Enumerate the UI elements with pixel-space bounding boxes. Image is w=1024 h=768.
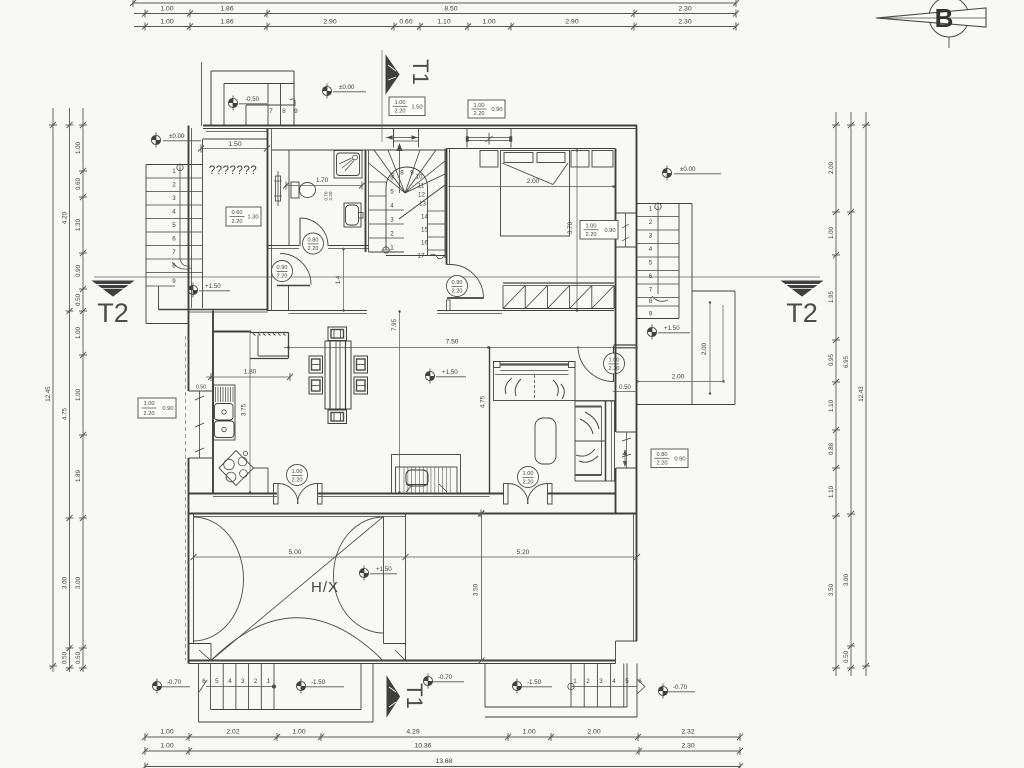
dimension row top 2: 1.00 1.86 2.90 0.60 1.10 1.00 2.90 2.30 <box>134 19 739 31</box>
svg-text:0.90: 0.90 <box>452 280 463 286</box>
svg-text:4: 4 <box>228 678 232 685</box>
dimension row bottom 1 <box>142 729 743 742</box>
bed dim line <box>448 185 615 187</box>
bottom right stair direction <box>568 679 645 694</box>
svg-text:2.20: 2.20 <box>277 274 288 280</box>
right stair direction line <box>652 202 668 301</box>
svg-text:1.89: 1.89 <box>75 469 82 482</box>
svg-text:0.80: 0.80 <box>308 238 319 244</box>
corridor door 0.90/2.20 <box>277 254 311 312</box>
section marker T1 bottom <box>387 677 427 716</box>
chair <box>309 377 323 394</box>
nightstand right <box>571 151 589 168</box>
right outdoor stair <box>637 204 692 319</box>
svg-text:6.95: 6.95 <box>843 355 850 368</box>
level marker -1.50 <box>512 679 552 694</box>
chair <box>354 377 368 394</box>
balcony railing hatched <box>503 283 614 309</box>
section marker T2 right <box>782 281 822 328</box>
right bay walls <box>637 204 735 405</box>
dimension row top overall <box>130 0 739 7</box>
svg-text:4: 4 <box>390 203 394 210</box>
svg-text:1.00: 1.00 <box>474 103 485 109</box>
right dimension chain 6.95 3.00 0.50 <box>843 112 855 676</box>
inner face of top wall (left room and bath) <box>203 138 268 140</box>
svg-text:0.50: 0.50 <box>75 651 82 664</box>
svg-text:5: 5 <box>390 189 394 196</box>
svg-text:13.68: 13.68 <box>435 758 452 765</box>
svg-text:3: 3 <box>390 217 394 224</box>
svg-text:3: 3 <box>241 678 245 685</box>
left fine dimension chain <box>75 108 87 672</box>
winder stair well <box>369 149 446 259</box>
bedroom left wall <box>446 149 448 265</box>
svg-text:12.43: 12.43 <box>858 386 865 402</box>
H/X room left wall <box>193 514 195 645</box>
svg-text:5: 5 <box>649 260 653 267</box>
section marker T2 left <box>93 281 133 328</box>
winder steps fan <box>369 150 446 219</box>
H/X left pilaster <box>189 644 212 661</box>
bedroom vertical dim 3.70 <box>567 149 578 311</box>
svg-text:7: 7 <box>649 287 653 294</box>
lower face wall / terrace top <box>189 510 638 518</box>
svg-text:1.50: 1.50 <box>411 104 422 110</box>
bathroom left wall shaft <box>288 150 290 246</box>
svg-text:2.20: 2.20 <box>452 289 463 295</box>
svg-text:1.00: 1.00 <box>828 226 835 239</box>
svg-text:2.30: 2.30 <box>678 6 691 13</box>
level marker -0.50 <box>228 96 267 111</box>
section line T2 across plan <box>94 276 820 278</box>
svg-text:1.00: 1.00 <box>522 729 535 736</box>
svg-text:17: 17 <box>418 253 425 260</box>
svg-text:1.50: 1.50 <box>228 141 241 148</box>
svg-text:10.36: 10.36 <box>414 743 431 750</box>
coffee table <box>535 418 556 464</box>
kitchen cupboard <box>250 333 289 359</box>
right fine dimension chain <box>828 112 840 676</box>
terrace depth dim 3.50 <box>473 511 486 664</box>
left dimension chain total 12.45 <box>45 108 57 672</box>
washbasin <box>344 203 363 227</box>
svg-text:1.10: 1.10 <box>828 399 835 412</box>
svg-text:5: 5 <box>215 678 219 685</box>
svg-text:1.70: 1.70 <box>316 177 329 184</box>
french door 1 (dining to terrace) <box>274 483 323 504</box>
svg-text:H/X: H/X <box>311 579 339 596</box>
bottom right porch <box>485 664 637 718</box>
entry porch walls <box>202 62 295 132</box>
nightstand left <box>480 151 498 168</box>
left room inner left wall face <box>202 139 204 308</box>
bottom wall of main building <box>189 494 616 497</box>
svg-text:1.95: 1.95 <box>828 290 835 303</box>
closet right <box>592 151 613 168</box>
svg-text:0.95: 0.95 <box>828 353 835 366</box>
level marker -0.70 <box>423 674 464 689</box>
svg-text:4.29: 4.29 <box>406 729 419 736</box>
svg-text:1.00: 1.00 <box>160 729 173 736</box>
level marker -1.50 <box>296 679 344 694</box>
bathroom door 0.80/2.20 <box>300 218 328 246</box>
svg-text:13: 13 <box>419 201 426 208</box>
svg-text:11: 11 <box>418 183 425 190</box>
H/X room right wall <box>384 514 406 661</box>
svg-text:5.20: 5.20 <box>517 549 530 556</box>
svg-text:2.30: 2.30 <box>681 743 694 750</box>
kitchen top wall <box>213 331 250 333</box>
bottom right stair steps 1-6 <box>571 664 642 708</box>
svg-text:0.90: 0.90 <box>604 228 615 234</box>
level marker +1.50 <box>425 369 466 384</box>
stair up arrow through window <box>397 143 403 193</box>
svg-text:2.00: 2.00 <box>527 178 540 185</box>
svg-text:???????: ??????? <box>209 165 257 177</box>
svg-text:3.00: 3.00 <box>843 573 850 586</box>
dimension row top 1: 1.00 1.86 8.50 2.30 <box>134 6 739 18</box>
kitchen stove 4 burners <box>219 451 254 486</box>
svg-text:0.60: 0.60 <box>232 210 243 216</box>
H/X diagonal <box>211 517 384 661</box>
left dimension chain 4.20 4.75 3.00 0.50 <box>62 108 74 672</box>
svg-text:1.00: 1.00 <box>75 388 82 401</box>
section marker T1 top <box>382 50 433 142</box>
level marker +1.50 <box>647 325 690 340</box>
svg-text:+1.50: +1.50 <box>205 283 221 290</box>
svg-text:2.00: 2.00 <box>828 161 835 174</box>
svg-text:9: 9 <box>294 108 298 115</box>
entry steps 7 8 9 <box>246 84 298 127</box>
svg-text:3: 3 <box>599 678 603 685</box>
shower <box>334 151 362 179</box>
horizontal dim 2.00 at bay <box>636 374 724 383</box>
kitchen vertical dim 3.75 <box>241 330 252 493</box>
vertical dim 7.95 <box>391 310 401 493</box>
svg-text:0.60: 0.60 <box>399 19 412 26</box>
svg-text:-1.50: -1.50 <box>311 679 326 686</box>
svg-text:1: 1 <box>172 168 176 175</box>
svg-text:1: 1 <box>649 206 653 213</box>
dining/living separator wall <box>489 347 491 494</box>
svg-text:10: 10 <box>416 174 423 181</box>
svg-text:T1: T1 <box>402 683 427 709</box>
svg-text:2.20: 2.20 <box>292 478 303 484</box>
dimension row bottom 3: total 13.68 <box>142 758 743 768</box>
svg-text:7: 7 <box>269 108 273 115</box>
svg-text:5: 5 <box>625 678 629 685</box>
svg-text:-0.70: -0.70 <box>673 684 688 691</box>
level marker ±0.00 <box>322 84 366 99</box>
svg-text:2.02: 2.02 <box>226 729 239 736</box>
bottom left stair direction <box>199 680 276 692</box>
right dimension chain total 12.43 <box>858 112 870 676</box>
svg-text:0.50: 0.50 <box>75 293 82 306</box>
svg-text:4: 4 <box>649 246 653 253</box>
svg-text:2: 2 <box>649 219 653 226</box>
svg-text:2.20: 2.20 <box>308 246 319 252</box>
svg-text:1.00: 1.00 <box>160 19 173 26</box>
svg-text:8: 8 <box>400 170 404 177</box>
svg-text:T1: T1 <box>408 59 433 85</box>
svg-text:-0.50: -0.50 <box>245 96 260 103</box>
svg-text:2.20: 2.20 <box>657 461 668 467</box>
north arrow with letter B <box>876 0 986 48</box>
svg-text:2.32: 2.32 <box>681 729 694 736</box>
svg-text:3.75: 3.75 <box>241 403 248 416</box>
svg-text:12: 12 <box>418 192 425 199</box>
svg-text:0.88: 0.88 <box>828 442 835 455</box>
svg-text:-0.70: -0.70 <box>167 679 182 686</box>
left room bottom wall <box>159 309 269 311</box>
fireplace stove <box>392 455 461 494</box>
svg-text:1: 1 <box>573 678 577 685</box>
svg-text:2: 2 <box>390 231 394 238</box>
svg-text:7: 7 <box>172 249 176 256</box>
bottom left porch <box>199 664 374 723</box>
svg-text:B: B <box>935 3 954 33</box>
svg-text:1.00: 1.00 <box>292 469 303 475</box>
kitchen inner left wall <box>212 332 214 494</box>
svg-text:1.10: 1.10 <box>437 19 450 26</box>
svg-text:3.50: 3.50 <box>473 583 480 596</box>
svg-text:14: 14 <box>421 214 428 221</box>
roof overhang dashed line left <box>185 336 187 660</box>
bedroom right wall <box>615 149 617 312</box>
svg-text:2.90: 2.90 <box>323 19 336 26</box>
dim 0.50 living room wall <box>613 385 637 392</box>
svg-text:8: 8 <box>282 108 286 115</box>
svg-text:2: 2 <box>254 678 258 685</box>
hall door 0.90/2.20 <box>447 265 484 311</box>
living room door 1.00/2.20 <box>578 346 614 382</box>
bathroom right wall / stair left wall <box>365 150 367 252</box>
kitchen counter <box>253 468 268 494</box>
svg-text:2.20: 2.20 <box>609 366 620 372</box>
svg-text:1.00: 1.00 <box>292 729 305 736</box>
svg-text:1.00: 1.00 <box>523 471 534 477</box>
svg-text:15: 15 <box>421 227 428 234</box>
level marker +1.50 <box>359 566 397 581</box>
living room top wall and dim 7.50 <box>284 339 638 349</box>
svg-text:T2: T2 <box>786 298 818 328</box>
svg-text:1.4: 1.4 <box>335 275 342 284</box>
svg-text:8: 8 <box>649 298 653 305</box>
svg-text:+1.50: +1.50 <box>376 566 392 573</box>
chair <box>354 356 368 373</box>
svg-text:2: 2 <box>586 678 590 685</box>
kitchen sink unit <box>214 385 236 440</box>
svg-text:3: 3 <box>172 195 176 202</box>
svg-text:2: 2 <box>172 182 176 189</box>
svg-text:6: 6 <box>649 273 653 280</box>
dim 5.00 / 5.20 <box>191 549 641 561</box>
exterior wall top <box>203 125 637 127</box>
window in top wall right of stair <box>466 129 512 148</box>
bay vertical dim 2.00 <box>701 301 723 394</box>
svg-text:6: 6 <box>638 678 642 685</box>
level marker -0.70 <box>152 679 190 694</box>
svg-text:1.00: 1.00 <box>75 326 82 339</box>
svg-text:4.75: 4.75 <box>480 395 487 408</box>
svg-text:0.90: 0.90 <box>162 406 173 412</box>
svg-text:3.50: 3.50 <box>828 583 835 596</box>
living room right wall <box>615 311 617 432</box>
dining table <box>325 341 351 409</box>
terrace right wall <box>633 514 635 642</box>
svg-text:±0.00: ±0.00 <box>680 166 696 173</box>
bottom exterior wall of terrace level <box>189 641 638 664</box>
svg-text:0.60: 0.60 <box>75 177 82 190</box>
svg-text:T2: T2 <box>97 298 129 328</box>
svg-text:7.50: 7.50 <box>446 339 459 346</box>
level marker +1.50 <box>188 283 230 298</box>
wall below balcony <box>268 311 614 314</box>
svg-text:1.86: 1.86 <box>220 19 233 26</box>
svg-text:3.70: 3.70 <box>567 221 574 234</box>
svg-text:±0.00: ±0.00 <box>339 84 355 91</box>
hall dim 1.4 <box>335 248 345 312</box>
svg-text:2.20: 2.20 <box>474 111 485 117</box>
bed <box>501 151 570 237</box>
svg-text:2.00: 2.00 <box>701 342 708 355</box>
left room right wall (shared with bath) <box>267 128 269 311</box>
window living room right wall <box>616 432 637 468</box>
svg-text:0.90: 0.90 <box>277 265 288 271</box>
svg-text:0.80: 0.80 <box>657 452 668 458</box>
chair <box>328 327 347 341</box>
svg-text:2.20: 2.20 <box>328 191 333 200</box>
svg-text:2.20: 2.20 <box>232 219 243 225</box>
svg-text:4.20: 4.20 <box>62 211 69 224</box>
svg-text:3: 3 <box>649 233 653 240</box>
H/X vault arc bottom <box>211 618 383 661</box>
svg-text:6: 6 <box>172 236 176 243</box>
svg-text:1.00: 1.00 <box>609 358 620 364</box>
winder stair left flight steps <box>369 175 405 253</box>
svg-text:1.30: 1.30 <box>247 215 258 221</box>
svg-text:1.30: 1.30 <box>75 218 82 231</box>
svg-text:0.50: 0.50 <box>843 650 850 663</box>
svg-text:9: 9 <box>649 311 653 318</box>
svg-text:0.90: 0.90 <box>75 264 82 277</box>
winder stair central rail <box>382 167 428 256</box>
svg-text:12.45: 12.45 <box>45 386 52 402</box>
svg-text:1.00: 1.00 <box>144 401 155 407</box>
chair <box>309 356 323 373</box>
level marker -0.70 <box>658 684 695 699</box>
french door 2 (living to terrace) <box>504 483 553 504</box>
H/X vault arc right <box>333 517 383 633</box>
svg-text:5: 5 <box>172 222 176 229</box>
svg-text:16: 16 <box>421 240 428 247</box>
svg-text:1.00: 1.00 <box>395 100 406 106</box>
winder stair right flight steps <box>418 211 445 260</box>
chair <box>328 410 347 424</box>
svg-text:2.00: 2.00 <box>587 729 600 736</box>
svg-text:2.30: 2.30 <box>678 19 691 26</box>
svg-text:7: 7 <box>391 173 395 180</box>
svg-text:1.00: 1.00 <box>160 743 173 750</box>
svg-text:1: 1 <box>267 678 271 685</box>
dimension row bottom 2 <box>142 743 743 756</box>
toilet <box>291 182 316 198</box>
svg-text:+1.50: +1.50 <box>442 369 458 376</box>
svg-text:2.90: 2.90 <box>565 19 578 26</box>
window in top wall above stair <box>386 129 419 148</box>
dim 1.70 bathroom <box>283 177 365 190</box>
svg-text:±0.00: ±0.00 <box>169 133 185 140</box>
svg-text:5.00: 5.00 <box>289 549 302 556</box>
kitchen window left wall <box>189 385 214 459</box>
svg-text:2.20: 2.20 <box>144 411 155 417</box>
exterior wall right <box>636 126 638 642</box>
svg-text:-1.50: -1.50 <box>527 679 542 686</box>
svg-text:9: 9 <box>172 278 176 285</box>
svg-text:0.50: 0.50 <box>196 385 206 391</box>
svg-text:4: 4 <box>612 678 616 685</box>
H/X vault arc left <box>194 517 244 641</box>
sofa <box>494 362 616 401</box>
svg-text:9: 9 <box>410 170 414 177</box>
wall sofa two-seat <box>575 401 615 481</box>
svg-text:8.50: 8.50 <box>444 6 457 13</box>
svg-text:+1.50: +1.50 <box>664 325 680 332</box>
svg-text:1.10: 1.10 <box>828 485 835 498</box>
svg-text:2.20: 2.20 <box>395 109 406 115</box>
wall right of living door <box>614 344 638 346</box>
bottom left stair steps 1-6 <box>202 664 274 710</box>
svg-text:-0.70: -0.70 <box>438 674 453 681</box>
left stair direction line <box>172 163 191 269</box>
svg-text:1: 1 <box>390 245 394 252</box>
svg-text:4: 4 <box>172 209 176 216</box>
exterior wall left <box>188 126 190 392</box>
bathroom bottom wall with door opening <box>268 245 300 247</box>
level marker ±0.00 <box>662 166 721 181</box>
radiator left of bathroom <box>274 171 282 206</box>
svg-text:2.20: 2.20 <box>523 480 534 486</box>
jog wall to kitchen <box>212 311 214 332</box>
svg-text:0.90: 0.90 <box>491 107 502 113</box>
svg-text:0.50: 0.50 <box>62 651 69 664</box>
svg-text:1.86: 1.86 <box>220 6 233 13</box>
left outdoor stair <box>146 165 203 324</box>
level marker ±0.00 <box>151 133 201 148</box>
dim 1.80 kitchen <box>206 369 293 382</box>
svg-text:1.00: 1.00 <box>482 19 495 26</box>
dim 1.50 left room <box>198 141 270 153</box>
window bedroom right wall <box>616 213 637 247</box>
svg-text:0.90: 0.90 <box>674 456 685 462</box>
small vertical dim at living window <box>623 449 627 467</box>
svg-text:7.95: 7.95 <box>391 318 398 331</box>
svg-text:1.00: 1.00 <box>75 141 82 154</box>
svg-text:3.00: 3.00 <box>62 576 69 589</box>
svg-text:2.20: 2.20 <box>586 232 597 238</box>
svg-text:1.00: 1.00 <box>586 224 597 230</box>
svg-text:2.00: 2.00 <box>672 374 685 381</box>
svg-text:0.50: 0.50 <box>619 385 631 391</box>
svg-text:3.00: 3.00 <box>75 576 82 589</box>
svg-text:1.00: 1.00 <box>160 6 173 13</box>
svg-text:4.75: 4.75 <box>62 407 69 420</box>
inner face top wall bedroom <box>447 148 616 150</box>
